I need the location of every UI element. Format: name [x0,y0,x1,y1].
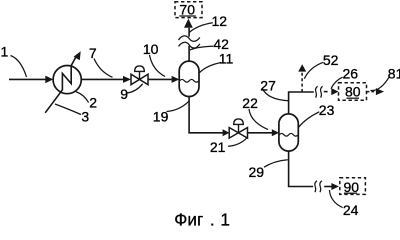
valve 21 body [229,128,247,139]
node arrowhead up into box 70 [184,19,193,28]
svg-text:42: 42 [213,36,229,52]
svg-text:10: 10 [143,41,159,57]
label 21 leader [228,138,247,146]
node arrowhead into separator 11 [172,76,180,83]
svg-text:90: 90 [344,179,360,195]
valve 21 actuator stem [238,124,240,132]
label 11 leader [199,63,221,73]
valve 9 actuator stem [139,71,141,79]
svg-text:11: 11 [219,50,234,66]
valve 21 actuator dome [234,119,244,125]
label 81 leader [370,77,389,91]
svg-text:12: 12 [212,13,228,29]
label 23 leader [299,112,320,128]
wire feed line 1 [9,78,46,80]
wire separator 23 overhead elbow [289,92,314,114]
svg-text:19: 19 [153,109,169,125]
valve 9 body [131,74,148,84]
svg-text:81: 81 [388,65,400,81]
wire valve 21 to separator 23 [248,132,273,134]
heat exchanger outlet arrowhead [74,51,81,60]
svg-text:23: 23 [319,102,335,118]
svg-text:21: 21 [210,139,226,155]
svg-text:7: 7 [89,45,97,61]
svg-text:.: . [210,210,215,229]
wire separator 11 bottoms, elbow to valve 21 [189,96,223,132]
box 80 underline [347,97,360,99]
label 1 leader [11,56,27,78]
wire valve 9 to separator 11 [148,78,172,80]
wire dash before box 80 [324,91,328,93]
label 29 leader [264,160,288,168]
separator vessel 23 [279,114,298,151]
separator 11 liquid level wavy line [180,79,199,82]
node arrowhead into box 80 [331,88,338,95]
label 27 leader [263,89,289,101]
box 90 dashed [340,178,366,195]
wire exchanger to valve 9 [81,78,123,80]
svg-text:52: 52 [323,52,339,68]
svg-text:1: 1 [1,44,9,60]
node arrowhead into separator 23 [272,129,279,136]
label 10 leader [150,55,166,77]
label 26 leader [331,77,343,88]
svg-text:22: 22 [242,95,258,111]
label 22 leader [249,109,268,130]
svg-text:3: 3 [81,109,89,125]
box 70 underline [179,15,196,17]
wire separator 11 overhead [188,28,190,61]
svg-text:80: 80 [345,83,361,99]
label 2 leader [76,92,89,103]
box 90 underline [344,192,357,194]
svg-text:9: 9 [120,86,128,102]
svg-text:2: 2 [89,95,97,111]
node arrowhead up vent 52 [298,64,306,71]
node arrowhead outlet 81 [376,88,384,95]
heat exchanger zigzag coil with through-line [45,55,77,113]
wire between break and box 90 [324,186,331,188]
node feed arrowhead into heat exchanger [45,76,53,84]
svg-text:24: 24 [343,202,359,218]
separator 23 liquid level wavy line [279,133,298,136]
line break squiggle overhead [316,86,318,97]
label 19 leader [167,101,189,111]
line break squiggle 42 [179,36,200,41]
node arrowhead into box 90 [331,183,339,190]
box 70 dashed [175,2,202,18]
label 7 leader [94,59,113,78]
line break squiggle bottoms [315,181,317,192]
label 9 leader [127,84,143,93]
label 52 leader [304,62,323,78]
separator vessel 11 [179,61,199,96]
node arrowhead into valve 9 [123,76,131,83]
wire separator 23 bottoms elbow [289,151,314,186]
label 42 leader [189,46,213,50]
svg-text:1: 1 [220,210,230,229]
dashed vent line 52 [301,72,303,92]
heat exchanger E (circle) [53,66,81,94]
svg-text:26: 26 [343,65,359,81]
wire dashed after box 80 [367,91,376,93]
valve 9 actuator dome [135,66,145,72]
node arrowhead into valve 21 [223,129,230,136]
label 3 leader [55,104,81,115]
label 12 leader [189,23,213,33]
box 80 dashed [339,83,367,100]
svg-text:29: 29 [249,164,265,180]
label 24 leader [329,190,342,208]
svg-text:70: 70 [179,1,195,17]
svg-text:27: 27 [260,78,276,94]
svg-text:Фиг: Фиг [174,210,203,229]
